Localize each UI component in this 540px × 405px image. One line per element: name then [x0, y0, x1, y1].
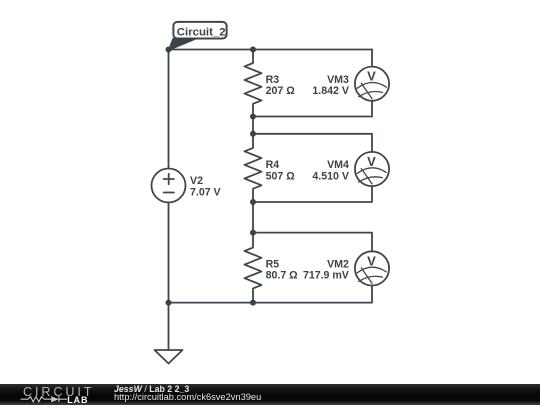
- svg-text:V: V: [367, 253, 376, 268]
- svg-text:V: V: [367, 154, 376, 169]
- svg-text:7.07 V: 7.07 V: [190, 187, 221, 199]
- svg-text:1.842 V: 1.842 V: [312, 85, 349, 97]
- svg-text:507 Ω: 507 Ω: [266, 170, 296, 182]
- svg-text:Circuit_2: Circuit_2: [177, 27, 226, 39]
- svg-text:LAB: LAB: [67, 395, 88, 405]
- svg-text:717.9 mV: 717.9 mV: [303, 270, 349, 282]
- svg-text:4.510 V: 4.510 V: [312, 170, 349, 182]
- svg-text:207 Ω: 207 Ω: [266, 85, 296, 97]
- svg-text:80.7 Ω: 80.7 Ω: [266, 270, 299, 282]
- svg-text:V2: V2: [190, 175, 203, 187]
- svg-text:V: V: [367, 69, 376, 84]
